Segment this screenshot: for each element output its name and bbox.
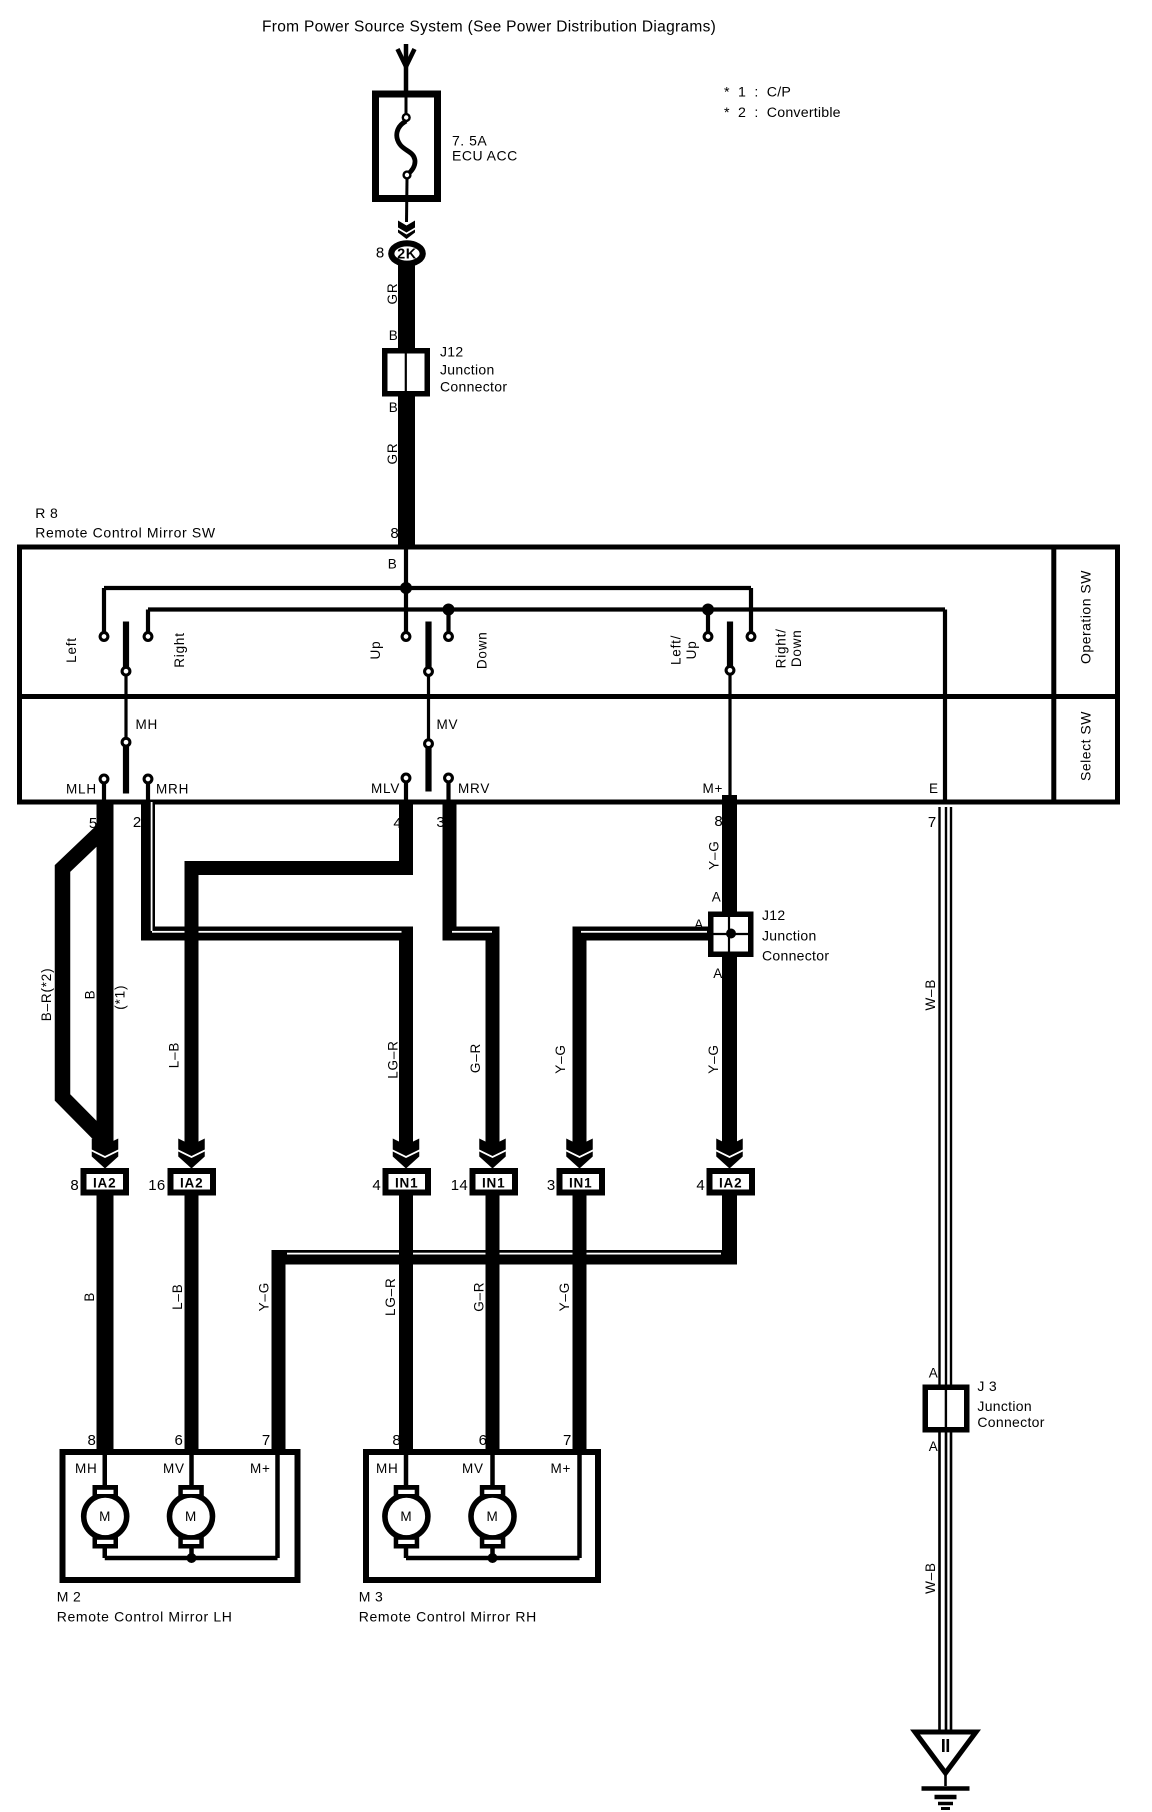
svg-text:A: A [929,1439,939,1454]
svg-text:M: M [486,1509,498,1524]
svg-text:MH: MH [376,1461,399,1476]
svg-text:M 2: M 2 [57,1589,82,1605]
svg-text:J12: J12 [762,907,785,923]
wire B main (pin5 to IA2-8) [97,802,114,1147]
wire M+ down (Y-G) [722,795,737,1147]
svg-text:B: B [83,989,98,999]
motor M2-MH [84,1495,127,1538]
svg-text:MV: MV [437,717,459,732]
svg-text:Down: Down [475,631,490,669]
svg-text:14: 14 [451,1177,468,1194]
junction connector J12 (lower) [711,914,751,954]
wire L-B to M2-6 [185,1196,199,1453]
svg-text:MH: MH [136,717,159,732]
M2 motor1 stub [103,1546,108,1558]
svg-text:Connector: Connector [440,379,507,395]
svg-text:Up: Up [368,641,383,660]
arrow into IA2-16 [178,1139,205,1157]
arrow into IA2-4 [716,1139,743,1157]
node: bus line 1 [104,586,751,590]
fuse element wire bottom [405,179,409,222]
fuse element S-curve [397,121,415,175]
svg-text:M+: M+ [703,781,724,796]
terminal MLH circle [100,775,108,783]
svg-text:MRH: MRH [156,782,189,797]
svg-text:2K: 2K [397,247,417,263]
svg-text:LG–R: LG–R [383,1277,398,1315]
svg-text:Left/: Left/ [669,635,684,665]
switch SW1 lever (horizontal select) [123,622,129,668]
svg-text:Junction: Junction [977,1398,1032,1414]
terminal Right [144,633,152,641]
svg-text:G–R: G–R [471,1282,486,1312]
connector 2K oval [391,243,422,263]
svg-text:Up: Up [684,640,699,659]
arrow into IN1-3 [566,1139,593,1157]
motor M2-MV [170,1495,213,1538]
fuse element top circle [403,114,410,121]
svg-text:7. 5A: 7. 5A [452,133,487,149]
svg-text:M+: M+ [250,1461,271,1476]
svg-text:IN1: IN1 [482,1176,505,1191]
wire B entry to node [404,549,408,588]
wire E inside R8 [943,610,947,803]
svg-text:16: 16 [148,1177,165,1194]
svg-text:ECU ACC: ECU ACC [452,148,518,164]
wire to Right terminal [146,610,150,634]
M3 wire M+ down [577,1455,582,1558]
svg-text:2: 2 [133,814,142,831]
svg-text:Y–G: Y–G [256,1282,271,1311]
arrow into connector 2K [398,221,415,233]
svg-text:W–B: W–B [923,979,938,1011]
svg-text:Right/: Right/ [773,628,788,668]
svg-text:M: M [99,1509,111,1524]
svg-text:R 8: R 8 [35,505,58,521]
svg-text:Remote Control Mirror SW: Remote Control Mirror SW [35,525,216,541]
connector IN1 (pin14) [473,1171,516,1193]
svg-text:Left: Left [64,637,79,663]
svg-text:GR: GR [385,443,400,465]
fuse element wire top [405,97,408,117]
svg-text:8: 8 [392,1432,401,1449]
svg-text:B–R(*2): B–R(*2) [39,968,54,1022]
wire W-B (E to ground, white wire with stripe) [938,807,940,1732]
wire GR from 2K to R8 (thick) [398,264,415,548]
svg-text:GR: GR [385,283,400,305]
terminal MLV circle [402,774,410,782]
svg-text:Remote Control Mirror LH: Remote Control Mirror LH [57,1609,233,1625]
M2 wire M+ down [275,1455,280,1558]
svg-text:A: A [929,1366,939,1381]
terminal Down [445,633,453,641]
svg-text:Right: Right [172,632,187,668]
svg-text:Connector: Connector [977,1414,1044,1430]
svg-text:6: 6 [175,1432,184,1449]
junction dot bus2 LeftUp [702,604,714,616]
switch SW2 lever (vertical select) [425,622,431,668]
wire Y-G to M3-7 [573,1196,587,1453]
connector IA2 (pin16) [171,1171,214,1193]
svg-text:8: 8 [390,525,399,542]
svg-text:4: 4 [372,1177,381,1194]
svg-text:A: A [694,917,704,932]
svg-text:Junction: Junction [440,362,495,378]
wire G-R to M3-6 [486,1196,500,1453]
svg-text:MRV: MRV [458,781,490,796]
M2 junction dot [187,1553,197,1563]
fuse element bottom circle [404,172,411,179]
terminal Right/Down [747,633,755,641]
svg-text:MV: MV [163,1461,185,1476]
connector IA2 (pin4) [710,1171,753,1193]
R8 inner vertical divider [1051,547,1056,802]
svg-text:Connector: Connector [762,948,829,964]
svg-text:M: M [400,1509,412,1524]
svg-text:IA2: IA2 [719,1176,742,1191]
wire to Right/Down terminal [749,588,753,633]
svg-text:MLV: MLV [371,781,400,796]
svg-text:B: B [82,1292,97,1302]
terminal Left [100,633,108,641]
ground symbol [915,1732,976,1773]
svg-text:B: B [389,400,399,415]
svg-text:B: B [389,328,399,343]
arrow into IA2-8 [92,1139,119,1157]
wire to Left/Up terminal [706,610,710,634]
terminal MRV circle [445,774,453,782]
motor M3-MV [471,1495,514,1538]
svg-text:B: B [388,557,398,572]
svg-text:M 3: M 3 [359,1589,384,1605]
wire to Down terminal [446,610,450,634]
svg-text:IA2: IA2 [180,1176,203,1191]
svg-text:7: 7 [928,814,937,831]
wire branch Y-G to IN1-3 [573,927,711,941]
wire W-B lower [938,1433,940,1733]
junction connector J12 (upper) [385,351,428,394]
M3 motor1 stub [404,1546,409,1558]
wire B-R alt path (parallelogram) [63,827,107,1142]
M3 wire MV to motor [490,1455,495,1487]
svg-text:Junction: Junction [762,928,817,944]
wire Y-G elbow to M2-7 [722,1196,737,1265]
R8 box outline [20,547,1118,802]
svg-text:J 3: J 3 [977,1378,997,1394]
svg-text:Y–G: Y–G [557,1282,572,1311]
M3 junction dot [488,1553,498,1563]
svg-text:W–B: W–B [923,1562,938,1594]
M2 motor2 stub [189,1546,194,1558]
junction connector J3 [925,1387,967,1430]
arrow into IN1-14 [479,1139,506,1157]
wire: feed into fuse [404,44,409,94]
svg-text:(*1): (*1) [112,985,127,1010]
terminal MRH circle [144,775,152,783]
svg-text:M: M [185,1509,197,1524]
svg-text:Operation SW: Operation SW [1078,570,1094,664]
connector IN1 (pin4) [386,1171,429,1193]
motor M3-MH [385,1495,428,1538]
wire LG-R to M3-8 [399,1196,413,1453]
M2 wire MH to motor [103,1455,108,1487]
svg-text:M+: M+ [551,1461,572,1476]
connector IA2 (pin8) [84,1171,127,1193]
svg-text:IN1: IN1 [569,1176,592,1191]
svg-text:* 1 : C/P: * 1 : C/P [724,85,791,101]
M3 wire MH to motor [404,1455,409,1487]
svg-text:4: 4 [696,1177,705,1194]
svg-text:IN1: IN1 [395,1176,418,1191]
wire MRH pin2 to IN1-4 [141,802,155,940]
svg-text:Y–G: Y–G [706,1044,721,1073]
wire MLV pin4 to IA2-16 [399,802,413,875]
wire to Up terminal [404,588,408,633]
svg-text:J12: J12 [440,344,463,360]
M2 bottom bus [105,1556,278,1561]
junction dot bus2 Down [443,604,455,616]
arrow into IN1-4 [393,1139,420,1157]
svg-text:Remote Control Mirror RH: Remote Control Mirror RH [359,1609,537,1625]
wire MRV pin3 to IN1-14 [443,802,457,941]
svg-text:8: 8 [714,813,723,830]
svg-text:8: 8 [70,1177,79,1194]
M3 bottom bus [406,1556,580,1561]
M2 wire MV to motor [189,1455,194,1487]
terminal Left/Up [704,633,712,641]
junction dot B/bus1 [400,582,412,594]
arrow into fuse [398,49,415,67]
svg-text:3: 3 [547,1177,556,1194]
svg-text:IA2: IA2 [93,1176,116,1191]
svg-text:L–B: L–B [170,1283,185,1309]
svg-text:7: 7 [563,1432,572,1449]
svg-text:* 2 : Convertible: * 2 : Convertible [724,105,841,121]
R8 horizontal divider (Operation/Select) [17,694,1118,699]
svg-text:Y–G: Y–G [707,840,722,869]
fuse F ECU ACC box [376,94,438,199]
svg-text:A: A [713,966,723,981]
connector IN1 (pin3) [560,1171,603,1193]
svg-text:Y–G: Y–G [553,1044,568,1073]
mirror M2 box [63,1452,298,1580]
svg-text:G–R: G–R [468,1043,483,1073]
svg-text:LG–R: LG–R [386,1040,401,1078]
svg-text:A: A [712,890,722,905]
svg-text:From Power Source System (See: From Power Source System (See Power Dist… [262,19,716,36]
svg-text:6: 6 [479,1432,488,1449]
M3 motor2 stub [490,1546,495,1558]
svg-text:MH: MH [75,1461,98,1476]
switch SW3 lever (both) [727,622,733,667]
node: bus line 2 [148,607,945,611]
terminal Up [402,633,410,641]
svg-text:MLH: MLH [66,782,97,797]
svg-text:Down: Down [789,629,804,667]
svg-text:7: 7 [262,1432,271,1449]
wire B to M2-8 [97,1196,114,1453]
svg-text:8: 8 [88,1432,97,1449]
svg-text:MV: MV [462,1461,484,1476]
wire to Left terminal [102,588,106,633]
svg-text:E: E [929,781,939,796]
mirror M3 box [366,1452,598,1580]
svg-text:8: 8 [376,245,385,262]
svg-text:Select SW: Select SW [1078,711,1094,781]
svg-text:L–B: L–B [167,1042,182,1068]
